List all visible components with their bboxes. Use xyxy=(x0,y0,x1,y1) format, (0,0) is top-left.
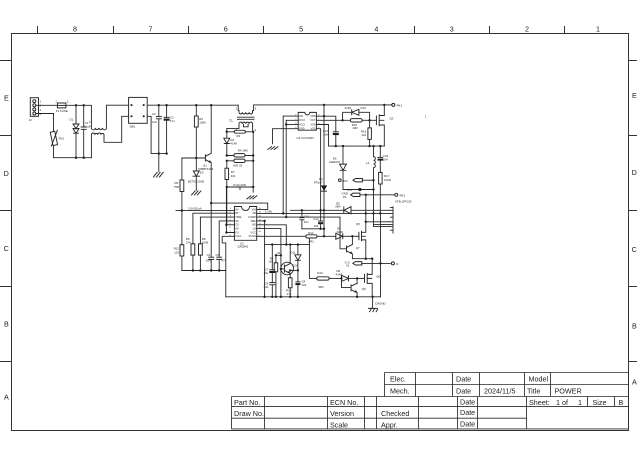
wire U2 pin5R bundle xyxy=(257,225,288,246)
op-amp U2 PWM controller QR2841 xyxy=(230,207,262,249)
svg-text:6: 6 xyxy=(224,25,228,34)
svg-text:VDD: VDD xyxy=(310,115,315,118)
node VFB comb header xyxy=(389,207,393,233)
svg-text:R14: R14 xyxy=(308,231,314,235)
svg-text:4148: 4148 xyxy=(336,230,343,234)
svg-text:104: 104 xyxy=(301,283,306,287)
capacitor C9 xyxy=(263,273,275,297)
wire T1 pin3 up to right bus xyxy=(253,105,254,112)
svg-text:HER207: HER207 xyxy=(329,160,340,164)
svg-text:12V: 12V xyxy=(293,263,298,267)
wire Q5 source node xyxy=(352,258,373,260)
svg-text:SS: SS xyxy=(235,219,239,223)
wire U2 pin4L to C5 xyxy=(219,221,234,257)
resistor R5b xyxy=(226,159,255,167)
svg-text:L1: L1 xyxy=(89,120,93,124)
svg-text:1: 1 xyxy=(236,106,238,110)
svg-text:1: 1 xyxy=(578,398,582,407)
svg-text:Title: Title xyxy=(527,387,540,396)
svg-text:POWER: POWER xyxy=(555,387,582,396)
diode D10 xyxy=(343,106,370,120)
svg-text:Date: Date xyxy=(460,420,475,429)
svg-text:4148: 4148 xyxy=(345,106,352,110)
svg-text:7: 7 xyxy=(149,25,153,34)
svg-text:D: D xyxy=(632,168,637,177)
wire T1 pin2 chain down xyxy=(252,127,255,192)
svg-text:C10: C10 xyxy=(304,214,310,218)
resistor R16 xyxy=(361,120,372,146)
wire rail B left drop xyxy=(264,245,266,297)
ground (snubber) xyxy=(246,196,257,200)
title block text xyxy=(234,375,624,430)
svg-text:BZT52C20B: BZT52C20B xyxy=(188,179,204,183)
capacitor C5 xyxy=(216,253,227,271)
svg-text:COMP: COMP xyxy=(248,215,256,219)
svg-text:C: C xyxy=(4,244,9,253)
row letters right xyxy=(632,91,637,387)
svg-text:1uF: 1uF xyxy=(152,120,157,124)
svg-text:D10: D10 xyxy=(361,106,367,110)
capacitor C13 xyxy=(323,129,339,146)
svg-text:A: A xyxy=(632,378,637,387)
svg-text:D11: D11 xyxy=(291,251,296,255)
svg-text:ECN No.: ECN No. xyxy=(330,398,358,407)
wire J2 pin4 down to varistor xyxy=(36,114,54,132)
svg-text:N: N xyxy=(396,262,398,266)
wire CS chain to U2 xyxy=(226,187,228,225)
svg-text:VCCI: VCCI xyxy=(299,119,305,122)
inductor L2 xyxy=(366,146,375,227)
wire bottom rail xyxy=(226,296,381,298)
svg-text:104: 104 xyxy=(314,224,319,228)
wire snubber bottom node xyxy=(226,183,255,190)
svg-text:F1 FUSE: F1 FUSE xyxy=(56,109,68,113)
wire U4 VDD to bus and C13 xyxy=(316,105,335,132)
wire U4 pin4R long down xyxy=(316,129,320,211)
svg-text:Date: Date xyxy=(456,387,471,396)
svg-text:P1: P1 xyxy=(343,195,347,199)
svg-text:DB1: DB1 xyxy=(130,124,136,128)
svg-text:B: B xyxy=(619,398,624,407)
svg-text:PUSH: PUSH xyxy=(249,234,256,238)
column numbers top xyxy=(73,25,600,34)
common-mode choke L1 xyxy=(89,120,107,134)
svg-text:Elec.: Elec. xyxy=(390,375,406,384)
node U3 wire xyxy=(275,251,282,256)
wire rail B drop to R13 xyxy=(309,238,316,278)
diode D9 xyxy=(336,227,356,240)
diode D2 xyxy=(314,116,327,236)
svg-text:RK2: RK2 xyxy=(400,193,406,197)
resistor R7 xyxy=(225,161,236,187)
op-amp U4 gate driver UCC5304 xyxy=(295,112,320,140)
resistor R12 xyxy=(174,211,184,271)
svg-text:VSS: VSS xyxy=(311,123,316,126)
net 2.5V/20uA rail xyxy=(176,206,234,211)
svg-text:2024/11/5: 2024/11/5 xyxy=(484,387,515,396)
svg-text:C4: C4 xyxy=(207,253,211,257)
svg-text:805 25: 805 25 xyxy=(233,163,242,167)
varistor RV1 xyxy=(50,130,64,147)
wire right bus (switch node) xyxy=(254,104,386,106)
wire U2 pin5L/pin7L chain xyxy=(225,187,234,234)
diode D5 xyxy=(335,202,388,214)
svg-text:1045: 1045 xyxy=(202,240,209,244)
svg-text:104: 104 xyxy=(383,158,388,162)
wire U2 pin3L to R8 xyxy=(200,217,234,244)
capacitor C24 xyxy=(378,146,389,172)
wire DC- return xyxy=(147,116,168,155)
svg-text:Size: Size xyxy=(593,398,607,407)
svg-text:CS: CS xyxy=(235,223,239,227)
svg-text:10R: 10R xyxy=(352,126,357,130)
svg-text:TIME: TIME xyxy=(235,215,241,219)
svg-text:FULL: FULL xyxy=(235,234,242,238)
svg-text:104: 104 xyxy=(206,258,211,262)
svg-text:GND: GND xyxy=(299,128,305,131)
svg-text:0B4: 0B4 xyxy=(335,205,341,209)
svg-text:Checked: Checked xyxy=(381,409,409,418)
wire Q4 base chain xyxy=(280,255,282,296)
TVS D1 xyxy=(70,118,80,134)
fuse F1 xyxy=(55,100,69,114)
resistor R14 xyxy=(306,231,336,244)
capacitor C7 xyxy=(263,245,275,275)
svg-text:Scale: Scale xyxy=(330,421,348,430)
svg-text:10: 10 xyxy=(259,231,262,233)
svg-text:VIN: VIN xyxy=(299,115,303,118)
wire U2 pin8L loop xyxy=(222,236,234,296)
svg-text:C1Q=10D: C1Q=10D xyxy=(233,183,246,187)
diode D4 xyxy=(224,132,237,156)
svg-text:Q8: Q8 xyxy=(362,287,366,291)
svg-text:A: A xyxy=(4,393,9,402)
svg-text:4148: 4148 xyxy=(336,273,343,277)
svg-text:AG: AG xyxy=(235,227,239,231)
svg-text:4148: 4148 xyxy=(230,141,237,145)
wire U2 pin6R bundle xyxy=(257,229,281,256)
transistor Q7 xyxy=(347,235,361,259)
svg-text:E: E xyxy=(4,94,9,103)
svg-text:C: C xyxy=(632,245,637,254)
transformer T1 xyxy=(229,105,257,132)
svg-text:01: 01 xyxy=(346,264,350,268)
svg-text:R3: R3 xyxy=(237,134,241,138)
wire flag node down xyxy=(365,195,367,233)
svg-text:LD: LD xyxy=(253,227,256,231)
wire L1 bottom right to bridge xyxy=(104,116,129,142)
svg-text:Date: Date xyxy=(460,408,475,417)
svg-text:4: 4 xyxy=(374,25,378,34)
title block grid xyxy=(232,373,629,429)
svg-text:QR2841: QR2841 xyxy=(238,245,249,249)
ground (primary bus) xyxy=(153,154,163,178)
svg-text:Q7: Q7 xyxy=(356,246,360,250)
diode D8 xyxy=(336,269,362,281)
svg-text:D3: D3 xyxy=(200,171,204,175)
svg-text:B: B xyxy=(632,322,637,331)
svg-text:401: 401 xyxy=(231,174,236,178)
wire varistor to bottom rail xyxy=(54,146,92,158)
transistor Q1 xyxy=(198,153,213,171)
wire U2 pin8R to R14 xyxy=(257,235,306,237)
svg-text:2: 2 xyxy=(525,25,529,34)
svg-text:2: 2 xyxy=(67,100,69,104)
resistor R4 xyxy=(226,149,255,157)
resistor R8 xyxy=(199,237,209,270)
svg-text:101: 101 xyxy=(361,133,366,137)
capacitor C12 xyxy=(313,210,323,228)
resistor R2 xyxy=(194,105,206,158)
svg-text:0.1uF: 0.1uF xyxy=(84,124,92,128)
svg-text:C2: C2 xyxy=(152,112,156,116)
wire U2 pin4R REF xyxy=(257,220,266,245)
capacitor C2 xyxy=(152,105,162,153)
wire rail B xyxy=(265,243,310,245)
svg-text:2: 2 xyxy=(255,128,257,132)
svg-text:Mech.: Mech. xyxy=(390,387,410,396)
svg-text:75R: 75R xyxy=(174,185,179,189)
svg-text:472: 472 xyxy=(287,292,292,296)
svg-text:Part No.: Part No. xyxy=(234,398,260,407)
wire L1 bottom left to rail xyxy=(90,135,92,158)
svg-text:Appr.: Appr. xyxy=(381,421,398,430)
svg-text:VIN: VIN xyxy=(252,207,256,211)
wire fuse to L1 with taps xyxy=(66,104,92,128)
resistor R5 xyxy=(186,237,195,270)
svg-text:471: 471 xyxy=(221,258,226,262)
svg-text:Sheet:: Sheet: xyxy=(529,398,550,407)
wire Q1 base xyxy=(182,157,206,159)
resistor R6 xyxy=(174,158,184,211)
svg-text:Q5: Q5 xyxy=(356,222,360,226)
svg-text:100K: 100K xyxy=(199,121,206,125)
svg-text:D1: D1 xyxy=(70,118,74,122)
svg-text:Q3: Q3 xyxy=(390,116,394,120)
diode D6 xyxy=(329,146,346,189)
capacitor C4 xyxy=(206,253,214,271)
ground (U4) xyxy=(267,146,278,149)
resistor R3 xyxy=(226,130,255,138)
wire D1 xyxy=(75,105,77,159)
wire L1 top right to bridge xyxy=(106,105,128,128)
transistor Q5 (MOSFET) xyxy=(356,222,366,259)
svg-text:FR107: FR107 xyxy=(314,181,323,185)
svg-text:HE: HE xyxy=(252,223,256,227)
svg-text:Q6: Q6 xyxy=(376,275,380,279)
wire rail A xyxy=(291,209,344,211)
svg-text:6: 6 xyxy=(230,227,232,229)
svg-text:C5: C5 xyxy=(216,253,220,257)
svg-text:HV: HV xyxy=(235,207,239,211)
resistor R15 xyxy=(350,119,371,131)
svg-text:1K2: 1K2 xyxy=(268,260,274,264)
svg-text:1: 1 xyxy=(55,100,57,104)
wire U4 pin1L down to U2 FB xyxy=(283,116,298,213)
svg-text:D: D xyxy=(4,169,9,178)
node GS flag to N terminal xyxy=(345,260,399,267)
svg-text:1: 1 xyxy=(425,114,427,118)
svg-text:J2: J2 xyxy=(29,118,32,122)
svg-text:R13: R13 xyxy=(317,271,323,275)
capacitor C1 xyxy=(81,121,92,129)
svg-text:T1: T1 xyxy=(229,119,233,123)
svg-text:VCC: VCC xyxy=(250,230,256,234)
zener D11 xyxy=(291,245,301,271)
wire secondary rail xyxy=(329,145,385,147)
svg-text:REF: REF xyxy=(251,219,257,223)
svg-text:8: 8 xyxy=(73,25,77,34)
svg-text:5.26V: 5.26V xyxy=(265,209,273,213)
svg-text:100R: 100R xyxy=(384,178,391,182)
svg-text:113: 113 xyxy=(174,250,179,254)
svg-text:RK1: RK1 xyxy=(397,103,403,107)
wire DC+ bus xyxy=(147,104,238,106)
resistor R9 xyxy=(268,255,277,296)
node SW1 terminal xyxy=(384,103,427,118)
wire U4 pin2L/pin3L down to U2 COMP xyxy=(285,120,298,218)
row letters left xyxy=(4,94,9,402)
ground CHGND xyxy=(368,297,386,312)
transistor Q4 (opto side) xyxy=(280,245,294,278)
svg-text:90V: 90V xyxy=(343,179,348,183)
wire Q1 collector to bus xyxy=(210,105,212,153)
wire T1 secondary pins to snubber node xyxy=(227,127,248,132)
connector J2 xyxy=(29,98,42,123)
wire U2 pin3R bundle xyxy=(257,217,347,249)
resistor R13 xyxy=(317,271,342,289)
svg-text:FU: FU xyxy=(235,230,239,234)
svg-text:RV1: RV1 xyxy=(59,137,65,141)
svg-text:234: 234 xyxy=(186,240,191,244)
capacitor C3 (electrolytic) xyxy=(164,105,175,153)
svg-text:FB: FB xyxy=(253,211,257,215)
svg-text:B: B xyxy=(4,319,9,328)
svg-text:VSS: VSS xyxy=(311,128,316,131)
svg-text:10n: 10n xyxy=(304,220,309,224)
resistor R10 xyxy=(286,278,292,297)
svg-text:R4 1M0: R4 1M0 xyxy=(238,149,249,153)
node TP4 xyxy=(343,188,375,192)
svg-text:Draw No.: Draw No. xyxy=(234,409,264,418)
svg-text:BT: BT xyxy=(235,211,239,215)
svg-text:VCCI: VCCI xyxy=(299,123,305,126)
node GND1 flag to RK2 xyxy=(342,192,412,204)
wire J2 pin2 to fuse xyxy=(36,104,58,106)
svg-text:1 of: 1 of xyxy=(556,398,568,407)
svg-text:5: 5 xyxy=(299,25,303,34)
svg-text:3: 3 xyxy=(450,25,454,34)
ground (zener D3) xyxy=(191,191,201,196)
wire U4 GND xyxy=(273,129,299,144)
svg-text:OUT: OUT xyxy=(310,119,316,122)
svg-text:3: 3 xyxy=(255,106,257,110)
svg-text:1: 1 xyxy=(230,208,232,210)
svg-text:VFB_EPC26: VFB_EPC26 xyxy=(395,200,412,204)
svg-text:Date: Date xyxy=(456,375,471,384)
transistor Q6 (MOSFET) xyxy=(362,259,381,297)
wire bank rail xyxy=(182,269,226,271)
svg-text:L2: L2 xyxy=(366,161,370,165)
transistor Q3 (MOSFET) xyxy=(370,105,394,146)
svg-text:47u: 47u xyxy=(170,119,175,123)
svg-text:CHGND: CHGND xyxy=(375,301,386,305)
svg-text:E: E xyxy=(632,91,637,100)
wire U4 OUT to gate xyxy=(316,119,350,121)
wire U2 pin2L to R5 xyxy=(193,213,235,244)
svg-text:U3: U3 xyxy=(277,251,281,255)
wire Q4 to zener node xyxy=(289,269,299,271)
wire bundle right xyxy=(365,213,389,297)
svg-text:Date: Date xyxy=(460,397,475,406)
svg-text:2.5V/20uA: 2.5V/20uA xyxy=(188,206,202,210)
wire VCC to U2 pin1R xyxy=(211,203,268,209)
svg-text:Version: Version xyxy=(330,409,354,418)
wire U4 VSS to rail xyxy=(316,125,328,147)
wire cap bottoms xyxy=(302,228,325,238)
svg-text:U4 UCC5304: U4 UCC5304 xyxy=(297,136,315,140)
transistor Q8 xyxy=(342,277,366,297)
wire Q1 emitter down xyxy=(210,163,212,258)
capacitor C8 xyxy=(295,270,306,296)
svg-text:Model: Model xyxy=(529,375,549,384)
svg-text:9R1: 9R1 xyxy=(318,285,324,289)
resistor R17 xyxy=(379,172,391,213)
zener D3 xyxy=(188,158,204,190)
wire C1 xyxy=(83,105,85,159)
svg-text:1: 1 xyxy=(596,25,600,34)
bridge rectifier DB1 xyxy=(129,97,148,128)
capacitor C10 xyxy=(299,210,309,228)
node 90V flag xyxy=(339,179,374,183)
